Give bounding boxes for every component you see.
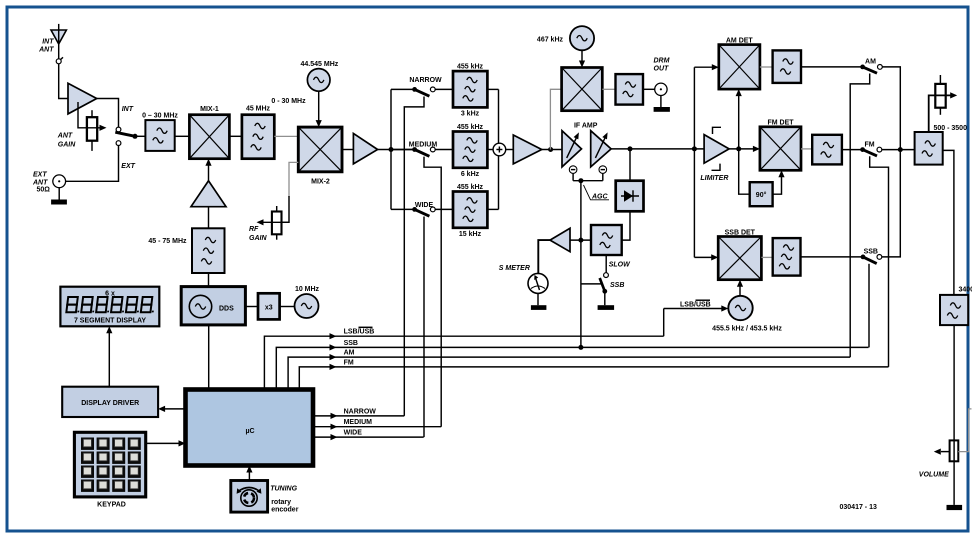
svg-text:500 - 3500: 500 - 3500: [934, 125, 968, 132]
mixer MIX-1: [189, 115, 229, 159]
oscillator 10 MHz: [295, 294, 319, 318]
amplifier limiter: [704, 127, 729, 170]
wire A2 to switch bank: [378, 149, 415, 151]
arrow FM bus: [330, 364, 337, 370]
svg-text:455 kHz: 455 kHz: [457, 184, 484, 191]
svg-text:50Ω: 50Ω: [37, 187, 51, 194]
arrow into AM DET: [712, 64, 719, 70]
wire limiter to FM DET: [729, 148, 753, 150]
svg-text:LIMITER: LIMITER: [700, 175, 728, 182]
wire filter1 to MIX-1: [175, 135, 190, 137]
svg-text:FM DET: FM DET: [767, 120, 794, 127]
label LSB/USB BFO: [680, 300, 711, 308]
svg-text:90°: 90°: [756, 191, 767, 199]
wire NARROW row: [313, 415, 404, 417]
wire AGC vertical: [580, 181, 582, 348]
wire FM DET to filter: [801, 148, 812, 150]
svg-text:NARROW: NARROW: [409, 77, 442, 84]
svg-text:44.545 MHz: 44.545 MHz: [301, 61, 339, 68]
svg-text:x3: x3: [265, 305, 273, 312]
arrow into display driver: [158, 406, 165, 412]
wire MEDIUM row: [313, 426, 441, 428]
wire antenna to plug: [58, 44, 60, 59]
svg-text:SSB: SSB: [610, 282, 624, 289]
wire narrow filter out: [487, 88, 498, 90]
svg-text:KEYPAD: KEYPAD: [97, 502, 126, 509]
mixer MIX-2: [298, 127, 342, 172]
wire to SSB DET: [694, 256, 712, 258]
block 90 degrees: [750, 182, 773, 206]
ground volume: [947, 505, 963, 510]
svg-text:3 kHz: 3 kHz: [461, 111, 480, 118]
wire SSB DET to filter: [761, 256, 772, 258]
mixer AM DET: [719, 45, 760, 90]
wire DRM OUT ground: [660, 96, 662, 108]
wire AM filter to switch: [801, 66, 863, 68]
wire medium filter out: [487, 149, 493, 151]
arrow wiper ANT GAIN: [100, 125, 107, 131]
arrow MEDIUM row: [331, 424, 338, 430]
arrow wiper RF GAIN: [257, 219, 264, 225]
svg-text:45 MHz: 45 MHz: [246, 106, 271, 113]
switch contact EXT: [116, 141, 121, 146]
oscillator 44.545 MHz: [307, 69, 330, 92]
filter 45-75 MHz: [192, 228, 225, 273]
svg-text:AGC: AGC: [591, 194, 609, 201]
arrow into uC: [179, 440, 186, 446]
svg-text:rotary: rotary: [271, 499, 291, 506]
arrow into BFO: [721, 305, 728, 311]
svg-text:AM: AM: [865, 59, 876, 66]
wire SSB bus: [276, 347, 868, 389]
arrow into FM DET: [753, 146, 760, 152]
wire WIDE switch to filter: [435, 208, 453, 210]
arrow LSB/USB bus: [330, 333, 337, 339]
arrow into DRM mixer: [579, 61, 585, 68]
node det tap: [692, 146, 697, 151]
diode AGC detector: [616, 181, 644, 212]
node SSB slow pivot: [602, 289, 607, 294]
svg-text:encoder: encoder: [271, 507, 299, 514]
switch SSB: [861, 255, 882, 264]
wire EXT ANT to ground: [58, 188, 60, 200]
wire driver to display: [108, 332, 110, 387]
arrow into AM DET bottom: [736, 89, 742, 96]
svg-text:0 – 30 MHz: 0 – 30 MHz: [142, 113, 178, 120]
wire osc to DRM mixer: [581, 50, 583, 62]
svg-text:ANT: ANT: [57, 133, 73, 140]
switch FM: [860, 147, 882, 156]
amplifier IF2: [591, 131, 611, 167]
filter AM audio: [773, 50, 801, 83]
amplifier A3: [513, 135, 541, 164]
svg-text:10 MHz: 10 MHz: [295, 286, 320, 293]
wire sum vertical bottom: [498, 156, 500, 210]
filter SSB audio: [773, 238, 801, 276]
svg-text:LSB/USB: LSB/USB: [344, 329, 375, 336]
svg-text:RF: RF: [249, 226, 259, 233]
amplifier A4 S meter: [550, 228, 570, 251]
filter 455 kHz 3 kHz: [453, 71, 487, 107]
potentiometer tone: [935, 75, 945, 115]
node AGC amp: [578, 238, 583, 243]
gain node IF2 minus: [599, 166, 607, 174]
filter FM audio: [812, 135, 842, 165]
switch AM: [860, 65, 882, 74]
wire sum vertical top: [498, 89, 500, 143]
wire MIX-2 to amp A2: [342, 149, 353, 151]
node FM out: [898, 147, 903, 152]
wire FM bus: [299, 367, 888, 390]
wire amp LO1 to filter: [208, 207, 210, 229]
potentiometer RF GAIN: [272, 206, 282, 240]
filter 455 kHz 6 kHz: [453, 132, 487, 168]
block KEYPAD: [74, 432, 145, 497]
filter DRM out: [616, 74, 644, 105]
filter 45 MHz: [242, 115, 274, 159]
wire SSB control: [868, 264, 870, 348]
connector plug: [56, 57, 63, 64]
svg-text:OUT: OUT: [654, 66, 670, 73]
ground SSB slow: [598, 305, 615, 310]
summer node: [493, 143, 506, 156]
wire gain control: [78, 102, 100, 128]
wire filter to DDS: [208, 273, 210, 287]
wire to WIDE switch: [391, 208, 415, 210]
wire SSB switch out: [882, 150, 901, 257]
wire osc to MIX-2: [318, 91, 320, 121]
filter 500-3500: [915, 132, 943, 165]
switch WIDE: [412, 207, 435, 216]
wire slow filter to A4: [570, 239, 591, 241]
amplifier LO1: [191, 181, 226, 207]
svg-text:030417 - 13: 030417 - 13: [840, 504, 877, 511]
block x3: [258, 293, 280, 319]
arrow wiper tone: [950, 92, 957, 98]
svg-text:455 kHz: 455 kHz: [457, 124, 484, 131]
mixer DRM: [562, 68, 603, 111]
wire filter 45MHz to MIX-2: [274, 135, 298, 137]
svg-text:3400: 3400: [959, 287, 972, 294]
svg-text:SSB: SSB: [344, 340, 358, 347]
wire keypad to uC: [146, 442, 180, 444]
arrow NARROW row: [331, 413, 338, 419]
wire FM filter to switch: [842, 149, 863, 151]
arrow wiper volume: [934, 449, 950, 455]
label rotary encoder: [271, 499, 299, 514]
ground EXT ANT: [51, 200, 67, 205]
arrow tuning into uC: [246, 466, 252, 473]
node ANT common: [133, 134, 138, 139]
switch NARROW: [412, 87, 435, 96]
svg-text:EXT: EXT: [121, 163, 135, 170]
svg-text:FM: FM: [864, 141, 874, 148]
wire A3 to IF amp: [542, 149, 562, 151]
wire AGC from IF2: [602, 173, 604, 180]
wire IF out to diode: [629, 149, 631, 181]
wire limiter out to AM DET bottom: [738, 94, 740, 149]
wire filter to DRM OUT: [643, 88, 655, 90]
svg-text:6 kHz: 6 kHz: [461, 171, 480, 178]
wire volume to ground: [953, 461, 955, 505]
svg-text:AM: AM: [344, 350, 355, 357]
antenna INT ANT: [51, 24, 66, 44]
wire FM switch out: [882, 149, 915, 151]
svg-text:SLOW: SLOW: [609, 261, 631, 268]
potentiometer VOLUME: [950, 440, 959, 461]
svg-text:15 kHz: 15 kHz: [459, 231, 482, 238]
wire to NARROW switch: [391, 88, 415, 90]
svg-text:ANT: ANT: [32, 180, 48, 187]
wire FM control: [870, 156, 889, 367]
svg-text:DDS: DDS: [219, 306, 234, 313]
svg-text:467 kHz: 467 kHz: [537, 37, 564, 44]
wire DDS to uC: [208, 325, 210, 390]
svg-text:µC: µC: [245, 428, 254, 435]
filter 3400: [940, 295, 968, 325]
arrow WIDE row: [331, 434, 338, 440]
wire uC to display driver: [164, 408, 186, 410]
label LSB/USB bus: [344, 327, 375, 335]
wire AM det tap vertical: [693, 67, 695, 257]
wire LO1 amp to MIX-1: [208, 164, 210, 181]
wire filter out to 3400 filter: [943, 150, 954, 295]
arrow into SSB DET bottom: [737, 280, 743, 287]
block DISPLAY DRIVER: [62, 387, 158, 417]
wire DDS to x3: [245, 306, 258, 308]
switch contact INT: [116, 127, 121, 132]
wire pivot ground: [604, 291, 606, 305]
svg-text:TUNING: TUNING: [270, 486, 297, 493]
wire to AM DET: [694, 66, 712, 68]
wire LSB/USB bus: [264, 336, 663, 389]
wire switch to filter: [135, 135, 145, 137]
wire plug to amp: [59, 64, 68, 99]
wire AM bus: [288, 357, 850, 389]
wire DRM tap vertical: [550, 89, 561, 149]
svg-text:0 - 30 MHz: 0 - 30 MHz: [271, 98, 306, 105]
gain node IF1 minus: [569, 166, 577, 174]
svg-text:NARROW: NARROW: [344, 408, 377, 415]
connector EXT ANT: [53, 175, 66, 188]
svg-text:45 - 75 MHz: 45 - 75 MHz: [148, 238, 187, 245]
wire 3400 filter to volume: [953, 325, 955, 461]
label AGC with leader: [584, 185, 610, 201]
wire summer to A3: [506, 149, 514, 151]
svg-text:DRM: DRM: [654, 58, 670, 65]
node DRM tap: [548, 147, 553, 152]
wire AGC bus: [573, 180, 603, 182]
svg-text:VOLUME: VOLUME: [919, 472, 949, 479]
ground S meter: [531, 305, 547, 310]
filter AGC slow: [591, 225, 622, 255]
svg-text:WIDE: WIDE: [344, 430, 363, 437]
amplifier A1: [68, 83, 97, 114]
wire AM control: [850, 74, 870, 358]
arrow into display: [106, 326, 112, 333]
svg-text:MEDIUM: MEDIUM: [344, 419, 373, 426]
wire volume wiper out: [958, 409, 971, 452]
oscillator BFO 455.5: [728, 296, 752, 320]
wire amp to switch INT: [97, 99, 119, 127]
wire to MEDIUM switch: [391, 149, 415, 151]
mixer FM DET: [760, 127, 801, 171]
svg-text:SSB: SSB: [864, 248, 878, 255]
wire MEDIUM switch to filter: [435, 149, 453, 151]
wire limiter to 90 block: [739, 149, 750, 194]
wire bank vertical: [390, 89, 392, 209]
arrow into SSB DET: [711, 254, 718, 260]
wire WIDE control: [423, 217, 425, 438]
wire A4 to meter: [538, 240, 550, 273]
wire NARROW control: [404, 97, 424, 416]
oscillator 467 kHz: [570, 26, 594, 50]
svg-text:LSB/USB: LSB/USB: [680, 302, 711, 309]
wire tone pot to filter: [929, 95, 952, 132]
node limiter out: [736, 146, 741, 151]
ground DRM OUT: [654, 107, 670, 112]
wire diode to slow filter: [622, 211, 630, 240]
svg-text:7 SEGMENT DISPLAY: 7 SEGMENT DISPLAY: [74, 318, 146, 325]
node AGC: [578, 178, 583, 183]
amplifier IF1: [562, 131, 582, 167]
connector DRM OUT: [655, 83, 667, 95]
switch MEDIUM: [412, 147, 435, 156]
wire LSB/USB into BFO: [664, 308, 722, 310]
filter 455 kHz 15 kHz: [453, 192, 487, 228]
svg-text:FM: FM: [344, 359, 354, 366]
svg-text:INT: INT: [122, 106, 134, 113]
label EXT ANT 50R: [32, 172, 50, 194]
svg-text:EXT: EXT: [33, 172, 47, 179]
block DDS: [181, 287, 245, 325]
meter S: [528, 273, 548, 293]
wire tuning to uC: [248, 471, 250, 481]
svg-text:455 kHz: 455 kHz: [457, 64, 484, 71]
svg-text:INT: INT: [42, 39, 54, 46]
node IF out: [628, 146, 633, 151]
wire WIDE row: [313, 436, 424, 438]
wire EXT contact to EXT ANT: [66, 146, 119, 182]
wire AM switch out: [882, 67, 900, 150]
wire AGC from IF1: [572, 173, 574, 180]
wire DRM mixer to filter: [602, 88, 615, 90]
wire SSB filter to switch: [801, 256, 864, 258]
switch contact SLOW: [604, 273, 609, 278]
wire LSB/USB riser: [663, 309, 665, 337]
wire 90 block to FM DET bottom: [773, 175, 782, 194]
svg-text:455.5 kHz / 453.5 kHz: 455.5 kHz / 453.5 kHz: [712, 326, 782, 333]
arrow into MIX-1 bottom: [205, 159, 211, 166]
arrow SSB bus: [330, 344, 337, 350]
svg-text:IF AMP: IF AMP: [574, 123, 598, 130]
wire IF amp output: [611, 148, 704, 150]
block 7 segment display: [60, 287, 159, 327]
wire x3 to 10 MHz: [280, 306, 295, 308]
svg-text:MIX-1: MIX-1: [200, 106, 219, 113]
mixer SSB DET: [718, 237, 761, 280]
block TUNING rotary encoder: [231, 481, 268, 513]
filter 0-30 MHz: [145, 120, 174, 151]
wire meter ground: [537, 293, 539, 305]
wire AM DET to filter: [760, 66, 773, 68]
microcontroller uC: [186, 390, 314, 466]
svg-text:DISPLAY DRIVER: DISPLAY DRIVER: [81, 400, 139, 407]
node SSB bus AGC: [578, 345, 583, 350]
wire BFO to SSB DET: [739, 285, 741, 296]
arrow AM bus: [330, 354, 337, 360]
potentiometer ANT GAIN: [87, 110, 97, 151]
node bank junction: [389, 147, 394, 152]
switch lever SSB slow: [600, 278, 605, 291]
switch lever ANT: [115, 132, 135, 136]
wire slow filter to switch: [605, 255, 607, 273]
arrow into MIX-2 top: [316, 120, 322, 127]
arrow into FM DET bottom: [778, 170, 784, 177]
wire MIX-1 to filter 45MHz: [229, 135, 242, 137]
wire RF GAIN arrow shaft: [263, 221, 290, 223]
amplifier A2: [353, 133, 377, 164]
wire wide filter out: [487, 208, 498, 210]
wire MEDIUM control: [424, 157, 441, 427]
svg-text:GAIN: GAIN: [249, 235, 267, 242]
wire NARROW switch to filter: [435, 88, 453, 90]
svg-text:MIX-2: MIX-2: [311, 179, 330, 186]
wire RF gain tap: [282, 162, 299, 222]
svg-text:ANT: ANT: [38, 47, 54, 54]
wire SSB control to lever: [581, 283, 601, 285]
svg-text:GAIN: GAIN: [58, 142, 76, 149]
svg-text:S METER: S METER: [499, 265, 530, 272]
